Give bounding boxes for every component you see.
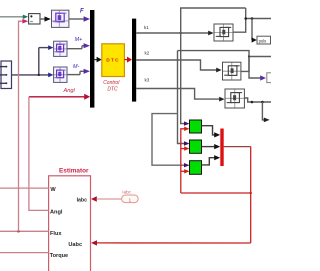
demux Demux1 (left input block) <box>0 61 12 89</box>
wire red feedback up to green gate inputs <box>181 127 190 193</box>
wire branch left to green gate G3 <box>152 114 190 168</box>
wire demux to relay M+ and M- <box>12 45 54 77</box>
wire tap down to scope <box>252 19 257 43</box>
svg-text:Uabc: Uabc <box>68 242 82 248</box>
svg-text:DTC: DTC <box>106 58 120 64</box>
wire Flux branch up to sum (speed feedback) <box>17 19 28 233</box>
svg-text:Iabc: Iabc <box>122 189 131 194</box>
green gate block G1 <box>190 120 202 133</box>
svg-text:Iabc: Iabc <box>77 197 87 203</box>
wire k2 to gate block U2 <box>136 60 221 72</box>
wire speed reference W* <box>0 15 28 19</box>
wire DTC output to demux2 (red) <box>124 57 132 63</box>
wire k1 branch down to green gate G1 <box>181 33 190 126</box>
relay RM- (torque hysteresis lower) <box>54 67 67 82</box>
red mux bar (Vabc) <box>220 129 223 167</box>
wire relay RF to mux1, label F <box>69 16 90 21</box>
relay RM+ (torque hysteresis upper) <box>54 41 67 56</box>
svg-text:Angl: Angl <box>63 88 76 94</box>
wire junction to right edge (y18.5) with taps <box>244 17 271 20</box>
svg-text:Flux: Flux <box>50 231 62 237</box>
wire U2 tap to right edge (y56.5) <box>248 55 271 57</box>
wire W output to left edge <box>0 187 49 189</box>
gate logic block U3 <box>225 89 244 108</box>
wire U3 output to right edge with taps <box>244 98 271 103</box>
svg-text:k3: k3 <box>145 77 150 82</box>
svg-text:Angl: Angl <box>50 209 63 215</box>
wire k1 branch up and over (to off-page right) <box>181 8 246 33</box>
demux Demux2 (black bar) <box>132 19 136 102</box>
svg-text:DTC: DTC <box>107 87 118 93</box>
wire U3 tap down to right edge arrow <box>262 102 269 122</box>
wire red mux output (dark red) to the right <box>224 146 251 148</box>
inport oval Iabc <box>122 195 139 203</box>
wire sum output to flux relay <box>40 16 51 21</box>
svg-text:k1: k1 <box>144 25 149 30</box>
wire Angl feedback into mux1 <box>29 94 90 100</box>
wire U1 output up to junction line <box>233 8 246 32</box>
green gate block G3 <box>190 161 202 175</box>
relay RF (flux hysteresis) <box>52 10 69 27</box>
svg-text:W: W <box>50 187 56 193</box>
svg-text:Estimator: Estimator <box>59 168 89 175</box>
wire Flux output to left edge <box>0 230 49 232</box>
wire relay M- to mux1, label M- <box>67 69 90 75</box>
wire k1 to gate block U1 <box>136 31 213 36</box>
wire Torque output to left edge <box>0 252 49 254</box>
gate logic block U1 <box>214 24 233 41</box>
estimator block outline <box>49 176 91 271</box>
wire U2 down to right edge block <box>249 57 266 81</box>
wire red feedback down and left <box>181 147 252 243</box>
wire k3 to gate block U3 <box>136 89 224 102</box>
svg-text:M+: M+ <box>75 37 83 43</box>
svg-text:F: F <box>80 9 84 15</box>
wire relay M+ to mux1, label M+ <box>67 43 90 49</box>
wire G1 output to red mux <box>202 126 221 138</box>
wire Angl output up to mux1 row <box>29 97 49 211</box>
right edge block sliver (inverter leg a) <box>267 73 273 83</box>
svg-text:k2: k2 <box>145 50 150 55</box>
green gate block G2 <box>190 140 202 153</box>
wire Uabc feedback to estimator <box>91 240 251 245</box>
mux Mux1 (black bar) <box>90 10 94 108</box>
wire U2 branch down to green gate G2 <box>178 51 190 146</box>
svg-text:M-: M- <box>73 64 79 70</box>
sum block Sum1 <box>29 14 40 24</box>
scope block (pulses) <box>257 36 271 44</box>
wire G3 output to red mux <box>202 155 221 165</box>
wire Iabc input arrow <box>91 196 122 202</box>
wire mux1 to DTC block <box>94 57 101 63</box>
wire G2 output to red mux <box>202 144 221 149</box>
svg-text:puls: puls <box>259 39 267 44</box>
svg-text:Control: Control <box>103 80 120 86</box>
DTC controller block (yellow) <box>102 44 125 77</box>
wire U2 output right and up to distribution <box>178 51 250 72</box>
label Control DTC <box>103 80 120 93</box>
svg-text:Torque: Torque <box>50 253 69 259</box>
gate logic block U2 <box>223 62 241 80</box>
